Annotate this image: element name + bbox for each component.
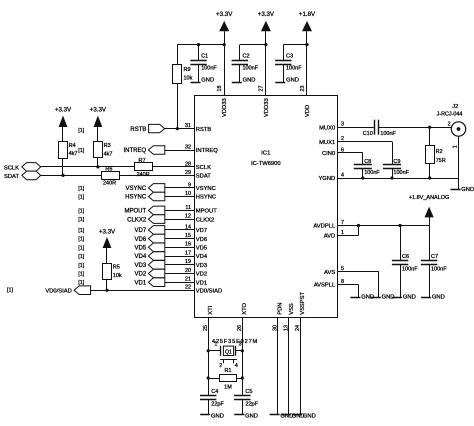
svg-text:+3.3V: +3.3V [55, 107, 72, 114]
svg-text:R1: R1 [224, 368, 231, 374]
power +1.8V rail (pin 23) [299, 11, 316, 96]
wire pin 7 AVDPLL net [338, 224, 430, 227]
ground below C1 [191, 77, 215, 83]
pin 16 VD5 (left) [185, 242, 207, 252]
svg-text:+3.3V: +3.3V [90, 107, 107, 114]
port INTREQ [124, 146, 165, 155]
wire pin 5 AVS to ground [338, 272, 379, 298]
pin 2 MUX1 (right) [319, 136, 344, 146]
wire RSTB to pin 31 [165, 127, 195, 130]
svg-text:[1]: [1] [7, 287, 13, 293]
svg-text:[1]: [1] [78, 254, 84, 260]
wire R7 to pin 28 [153, 166, 195, 168]
svg-text:75R: 75R [436, 158, 446, 164]
svg-text:VD1: VD1 [196, 280, 207, 286]
svg-text:VD1: VD1 [135, 280, 147, 286]
pin 22 VD0/SIAD (left) [185, 285, 222, 295]
svg-text:GND: GND [432, 295, 445, 301]
svg-text:VDD33: VDD33 [222, 98, 228, 117]
pin 9 VSYNC (left) [188, 182, 216, 192]
svg-text:XTI: XTI [208, 305, 214, 314]
port HSYNC [125, 192, 165, 201]
wire pin 3 MUX0 to C10 [338, 127, 374, 129]
pin 17 VD4 (left) [185, 250, 208, 260]
port SDAT [4, 171, 41, 180]
svg-text:VSYNC: VSYNC [126, 186, 147, 192]
capacitor C9 100nF [383, 159, 410, 178]
svg-text:IC1: IC1 [261, 151, 270, 157]
svg-text:3: 3 [239, 342, 242, 348]
pin 23 VDD (top) [300, 86, 311, 118]
svg-text:[1]: [1] [78, 186, 84, 192]
capacitor C5 22pF [234, 389, 258, 415]
ground below C5 [234, 413, 258, 419]
power +3.3V rail 1 (pin 18) [216, 11, 233, 96]
wire rail3 to C3 [283, 43, 308, 46]
wire SCLK to R7 [41, 165, 135, 168]
svg-text:MPOUT: MPOUT [125, 209, 147, 215]
wire VD6 to pin 15 [165, 238, 195, 240]
pin 15 VD6 (left) [185, 233, 207, 243]
wire MPOUT to pin 11 [165, 210, 195, 212]
svg-text:17: 17 [185, 250, 191, 256]
svg-text:1: 1 [214, 342, 217, 348]
svg-text:4k7: 4k7 [104, 152, 113, 158]
svg-text:R4: R4 [69, 143, 76, 149]
off-sheet [1] RSTB row [78, 128, 84, 134]
svg-text:100nF: 100nF [431, 266, 447, 272]
wire pin 1 AVD joins AVDPLL [338, 226, 359, 236]
svg-text:VD5: VD5 [135, 246, 147, 252]
ground at PDN [270, 413, 294, 419]
wire VSYNC to pin 9 [165, 187, 195, 189]
ground below C6 [392, 295, 416, 301]
svg-text:1M: 1M [224, 385, 232, 391]
pin 20 VD2 (left) [185, 268, 207, 278]
pin 28 SCLK (left) [185, 161, 211, 171]
off-sheet [1] VD6 row [78, 237, 84, 243]
svg-text:240R: 240R [103, 181, 116, 187]
svg-text:[1]: [1] [78, 195, 84, 201]
svg-text:SDAT: SDAT [4, 174, 19, 180]
pin 13 VSS (bottom) [284, 303, 295, 331]
wire VD3 to pin 19 [165, 264, 195, 266]
svg-text:100nF: 100nF [286, 66, 302, 72]
svg-text:VD5: VD5 [196, 246, 207, 252]
capacitor C8 100nF [354, 159, 381, 178]
svg-text:MPOUT: MPOUT [196, 209, 217, 215]
wire rail1 to C1/R9 [177, 44, 224, 46]
svg-text:[1]: [1] [78, 228, 84, 234]
off-sheet [1] VD4 row [78, 254, 84, 260]
ground at VSSPST [292, 413, 316, 419]
svg-text:100nF: 100nF [393, 170, 409, 176]
ground at AVS [371, 295, 395, 301]
pin 31 RSTB (left) [185, 123, 211, 133]
svg-text:GND: GND [461, 187, 474, 193]
svg-text:+3.3V: +3.3V [216, 11, 233, 18]
svg-text:R9: R9 [184, 67, 191, 73]
wire VD2 to pin 20 [165, 273, 195, 275]
svg-text:SCLK: SCLK [196, 165, 211, 171]
ground below C3 [275, 77, 299, 83]
svg-text:100nF: 100nF [402, 266, 418, 272]
wire pin 8 AVSPLL to ground [338, 285, 359, 298]
svg-text:VD0/SIAD: VD0/SIAD [45, 288, 71, 294]
svg-text:IC-TW6900: IC-TW6900 [251, 161, 281, 167]
svg-text:HSYNC: HSYNC [196, 195, 216, 201]
port VD2 [135, 269, 165, 278]
pin 10 HSYNC (left) [185, 191, 216, 201]
svg-text:21: 21 [185, 277, 191, 283]
resistor R3 4k7 [94, 142, 113, 167]
svg-text:VD3: VD3 [135, 263, 147, 269]
svg-text:100nF: 100nF [201, 66, 217, 72]
crystal Q1 A25F35E027M [208, 339, 258, 369]
svg-text:+1.8V: +1.8V [299, 11, 316, 18]
svg-text:VSS: VSS [289, 303, 295, 315]
pin 19 VD3 (left) [185, 259, 207, 269]
port VD7 [135, 226, 165, 235]
svg-text:VD2: VD2 [135, 272, 147, 278]
port VD5 [135, 243, 165, 252]
off-sheet [1] MPOUT row [78, 208, 84, 214]
svg-text:GND: GND [403, 295, 416, 301]
svg-text:10k: 10k [184, 75, 193, 81]
ground at VSS [281, 413, 305, 419]
svg-text:INTREQ: INTREQ [124, 148, 147, 154]
wire pin 2 MUX1 to C9 [338, 142, 393, 165]
svg-text:+3.3V: +3.3V [258, 11, 275, 18]
svg-text:SCLK: SCLK [4, 166, 19, 172]
svg-text:GND: GND [211, 413, 224, 419]
wire XTO vertical [241, 318, 244, 396]
pin 24 VSSPST (bottom) [295, 291, 306, 331]
svg-text:Q1: Q1 [225, 350, 232, 356]
svg-text:XTO: XTO [242, 302, 248, 314]
svg-text:GND: GND [201, 77, 214, 83]
resistor R5 10k [103, 264, 122, 291]
svg-text:AVS: AVS [324, 270, 335, 276]
pin 1 AVD (right) [324, 230, 344, 240]
off-sheet [1] VD0/SIAD row [7, 287, 13, 293]
svg-text:27: 27 [259, 86, 265, 92]
pin 18 VDD33 (top) [217, 86, 228, 118]
pin 3 MUX0 (right) [319, 122, 344, 132]
port MPOUT [125, 206, 165, 215]
power +3.3V above R5 [99, 229, 116, 264]
wire VD7 to pin 14 [165, 229, 195, 231]
off-sheet [1] INTREQ row [78, 148, 84, 154]
svg-text:VD6: VD6 [135, 237, 147, 243]
pin 21 VD1 (left) [185, 277, 207, 287]
power +3.3V above R3 [90, 107, 107, 142]
resistor R6 240R [102, 166, 120, 186]
svg-text:C3: C3 [286, 54, 293, 60]
port VD3 [135, 261, 165, 270]
off-sheet [1] VSYNC row [78, 186, 84, 192]
wire pin 6 CIN0 to C8 [338, 153, 363, 165]
wire CLKX2 to pin 12 [165, 219, 195, 221]
port VD0/SIAD [45, 286, 90, 295]
svg-text:PDN: PDN [278, 303, 284, 315]
wire VD5 to pin 16 [165, 247, 195, 249]
svg-text:100nF: 100nF [243, 66, 259, 72]
svg-text:VDD33: VDD33 [264, 98, 270, 117]
svg-text:VD0/SIAD: VD0/SIAD [196, 288, 222, 294]
pin 7 AVDPLL (right) [313, 220, 344, 230]
off-sheet [1] VD7 row [78, 228, 84, 234]
svg-text:RSTB: RSTB [130, 127, 146, 133]
svg-text:CLKX2: CLKX2 [196, 217, 214, 223]
port VD4 [135, 252, 165, 261]
wire VD0/SIAD to pin 22 [91, 289, 195, 292]
pin 6 CIN0 (right) [322, 147, 344, 157]
svg-text:22pF: 22pF [211, 402, 224, 408]
wire VD1 to pin 21 [165, 282, 195, 284]
svg-text:CLKX2: CLKX2 [127, 217, 147, 223]
svg-text:100nF: 100nF [364, 170, 380, 176]
svg-text:4: 4 [341, 172, 344, 178]
svg-text:[1]: [1] [78, 128, 84, 134]
resistor R2 75R [426, 127, 446, 178]
ground below C7 [421, 295, 445, 301]
pin 11 MPOUT (left) [185, 205, 217, 215]
svg-text:GND: GND [243, 77, 256, 83]
svg-text:23: 23 [300, 86, 306, 92]
wire pin 30 PDN to ground [277, 318, 279, 416]
svg-text:22: 22 [185, 285, 191, 291]
resistor R4 4k7 [59, 142, 78, 176]
svg-text:GND: GND [303, 413, 316, 419]
power +3.3V rail 2 (pin 27) [258, 11, 275, 96]
pin 30 PDN (bottom) [272, 303, 283, 331]
ground at AVSPLL [350, 295, 374, 301]
pin 5 AVS (right) [324, 266, 344, 276]
svg-text:[1]: [1] [78, 237, 84, 243]
svg-text:VD4: VD4 [135, 254, 147, 260]
ground below C4 [200, 413, 224, 419]
off-sheet [1] CLKX2 row [78, 217, 84, 223]
ground at J2 [451, 187, 474, 193]
off-sheet [1] VD5 row [78, 245, 84, 251]
wire J2 pin1 down to ground [458, 136, 460, 189]
capacitor C10 100nF [363, 120, 397, 137]
svg-text:4k7: 4k7 [69, 151, 78, 157]
IC IC1 IC-TW6900 body [195, 96, 338, 318]
svg-text:C4: C4 [211, 389, 218, 395]
svg-text:GND: GND [382, 295, 395, 301]
svg-text:RSTB: RSTB [196, 127, 212, 133]
svg-text:J2: J2 [452, 104, 458, 110]
svg-text:C8: C8 [364, 159, 371, 165]
svg-text:C6: C6 [402, 254, 409, 260]
svg-text:INTREQ: INTREQ [196, 148, 218, 154]
svg-text:R6: R6 [105, 166, 112, 172]
svg-text:YGND: YGND [318, 176, 335, 182]
wire SDAT to R6 [41, 174, 102, 177]
port SCLK [4, 163, 41, 172]
svg-text:[1]: [1] [78, 245, 84, 251]
pin 29 SDAT (left) [185, 170, 211, 180]
svg-text:[1]: [1] [78, 217, 84, 223]
port CLKX2 [127, 215, 165, 224]
power +3.3V above R4 [55, 107, 72, 142]
svg-text:[1]: [1] [78, 280, 84, 286]
wire C10 to J2 [379, 126, 451, 129]
svg-text:2: 2 [448, 122, 451, 128]
svg-text:VD4: VD4 [196, 254, 208, 260]
port VSYNC [126, 184, 165, 193]
svg-text:VSSPST: VSSPST [300, 291, 306, 314]
port VD6 [135, 234, 165, 243]
pin 4 YGND (right) [318, 172, 344, 182]
off-sheet [1] VD2 row [78, 272, 84, 278]
svg-text:MUX1: MUX1 [319, 140, 335, 146]
pin 12 CLKX2 (left) [185, 214, 214, 224]
svg-text:C5: C5 [245, 389, 252, 395]
svg-text:3: 3 [341, 122, 344, 128]
capacitor C3 100nF [275, 45, 302, 82]
svg-text:2: 2 [219, 363, 222, 369]
svg-text:GND: GND [286, 77, 299, 83]
svg-text:[1]: [1] [78, 263, 84, 269]
ground below C2 [232, 77, 256, 83]
svg-text:R3: R3 [104, 143, 111, 149]
svg-text:R5: R5 [113, 265, 120, 271]
svg-text:VD7: VD7 [196, 228, 207, 234]
resistor R1 1M [208, 368, 242, 391]
pin 14 VD7 (left) [185, 224, 207, 234]
svg-text:GND: GND [245, 413, 258, 419]
svg-text:MUX0: MUX0 [319, 125, 335, 131]
svg-text:11: 11 [185, 205, 191, 211]
off-sheet [1] VD1 row [78, 280, 84, 286]
svg-text:SDAT: SDAT [196, 174, 211, 180]
svg-text:R2: R2 [436, 149, 443, 155]
svg-text:24: 24 [295, 325, 301, 331]
pin 8 AVSPLL (right) [314, 279, 344, 289]
svg-text:[1]: [1] [78, 148, 84, 154]
off-sheet [1] VD3 row [78, 263, 84, 269]
svg-text:12: 12 [185, 214, 191, 220]
wire rail2 to C2 [240, 43, 268, 46]
svg-text:R7: R7 [139, 158, 146, 164]
capacitor C6 100nF [392, 226, 418, 298]
svg-text:[1]: [1] [78, 272, 84, 278]
svg-text:10k: 10k [113, 273, 122, 279]
svg-text:16: 16 [185, 242, 191, 248]
wire VD4 to pin 17 [165, 256, 195, 258]
svg-text:VSYNC: VSYNC [196, 186, 216, 192]
svg-text:29: 29 [185, 170, 191, 176]
port VD1 [135, 278, 165, 287]
svg-text:VD2: VD2 [196, 272, 207, 278]
svg-text:425F35E027M: 425F35E027M [212, 339, 258, 345]
svg-text:22pF: 22pF [245, 402, 258, 408]
capacitor C2 100nF [232, 45, 259, 82]
svg-text:VD6: VD6 [196, 237, 207, 243]
wire INTREQ to pin 32 [165, 150, 195, 152]
svg-text:1: 1 [452, 145, 458, 148]
wire R6 to pin 29 [119, 175, 194, 177]
wire XTI vertical [207, 318, 210, 396]
svg-text:[1]: [1] [78, 208, 84, 214]
svg-text:AVDPLL: AVDPLL [313, 224, 336, 230]
port RSTB [130, 124, 164, 132]
capacitor C4 22pF [200, 389, 224, 415]
svg-text:AVSPLL: AVSPLL [314, 283, 336, 289]
svg-text:CIN0: CIN0 [322, 151, 335, 157]
svg-text:GND: GND [361, 295, 374, 301]
resistor R9 10k [173, 45, 193, 129]
svg-text:32: 32 [185, 144, 191, 150]
resistor R7 240R [135, 158, 153, 178]
pin 27 VDD33 (top) [259, 86, 270, 118]
capacitor C7 100nF [421, 226, 447, 298]
svg-text:C7: C7 [431, 254, 438, 260]
power +1.8V_ANALOG [409, 195, 450, 226]
svg-text:+3.3V: +3.3V [99, 229, 116, 236]
svg-text:C9: C9 [393, 159, 400, 165]
svg-text:J-RCJ-044: J-RCJ-044 [437, 112, 463, 118]
pin 25 XTI (bottom) [203, 305, 214, 331]
svg-text:4: 4 [235, 363, 238, 369]
capacitor C1 100nF [190, 45, 217, 82]
connector J2 J-RCJ-044 RCA jack [437, 104, 466, 149]
wire pin 4 YGND net [338, 176, 459, 179]
wire pin 24 VSSPST to ground [300, 318, 302, 416]
svg-text:VDD: VDD [305, 105, 311, 117]
svg-text:C10: C10 [363, 131, 373, 137]
svg-text:VD7: VD7 [135, 228, 147, 234]
off-sheet [1] HSYNC row [78, 195, 84, 201]
svg-text:18: 18 [217, 86, 223, 92]
svg-text:VD3: VD3 [196, 263, 207, 269]
svg-text:HSYNC: HSYNC [125, 195, 147, 201]
pin 32 INTREQ (left) [185, 144, 218, 154]
pin 26 XTO (bottom) [237, 302, 248, 331]
wire pin 13 VSS to ground [288, 318, 290, 416]
node rail1 junctions [197, 43, 226, 46]
svg-text:C1: C1 [201, 54, 208, 60]
svg-text:AVD: AVD [324, 234, 336, 240]
svg-text:+1.8V_ANALOG: +1.8V_ANALOG [409, 195, 450, 201]
wire HSYNC to pin 10 [165, 196, 195, 198]
svg-text:100nF: 100nF [380, 131, 396, 137]
svg-text:C2: C2 [243, 54, 250, 60]
